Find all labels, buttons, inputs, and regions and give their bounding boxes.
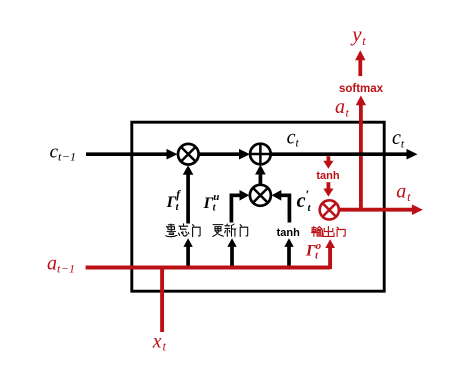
label 更新门 update-gate chinese text [213,224,248,237]
wire: output gate red arrow up from a/x line [325,239,335,269]
svg-text:tanh: tanh [277,227,301,239]
wire: multiply node to plus node [198,149,250,160]
wire: update product up into plus node [255,165,266,185]
label 遗忘门 forget-gate chinese text [166,224,200,237]
multiply node (forget gate product) [178,144,199,165]
wire: red vertical up to softmax [356,96,366,212]
wire: x_t red branch down [160,266,164,332]
multiply node (update gate product) [250,185,271,206]
label 输出门 output-gate chinese text (red) [312,227,346,237]
wire: a(t-1) red input line [86,266,331,270]
wire: red a_t output line to right [340,204,423,215]
wire: forget gate input arrow from a/x line [183,238,192,267]
wire: softmax to y_t arrow [355,50,365,76]
wire: forget gate vertical into multiply node [183,165,194,223]
plus node (cell state sum) [250,144,271,165]
svg-text:tanh: tanh [316,170,340,182]
wire: tanh input arrow from a/x line [284,238,293,267]
svg-text:softmax: softmax [339,83,384,95]
LSTM cell box [132,122,384,291]
wire: candidate tanh elbow into multiply node right [272,190,290,223]
wire: update gate input arrow from a/x line [227,238,236,267]
wire: update gate elbow into multiply node left [231,190,249,223]
wire: red tanh arrow from c line down (upper) [323,156,333,169]
wire: red tanh arrow into output product (lower) [323,182,333,196]
output gate multiply node (red) [320,200,339,219]
wire: c(t-1) input line into multiply node [86,149,178,160]
wire: plus node to c_t output (right, exits box) [271,149,418,160]
